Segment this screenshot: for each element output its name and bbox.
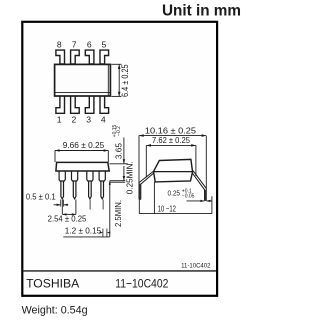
svg-text:11-10C402: 11-10C402 [181,264,211,270]
svg-text:TOSHIBA: TOSHIBA [26,277,80,291]
svg-text:7.62 ± 0.25: 7.62 ± 0.25 [152,136,190,145]
svg-text:10 ~12: 10 ~12 [158,205,177,214]
svg-text:0.25: 0.25 [168,189,181,198]
svg-text:3.65: 3.65 [114,143,123,160]
svg-text:8: 8 [57,40,62,50]
svg-text:4: 4 [101,114,106,124]
svg-text:−0.05: −0.05 [182,194,195,200]
svg-text:6: 6 [87,40,92,50]
svg-text:1.2 ± 0.15: 1.2 ± 0.15 [65,227,102,236]
svg-text:7: 7 [72,40,77,50]
svg-text:0.5 ± 0.1: 0.5 ± 0.1 [26,192,56,201]
svg-text:0.25MIN.: 0.25MIN. [125,161,134,194]
svg-text:3: 3 [86,114,91,124]
svg-text:1: 1 [57,114,62,124]
svg-text:9.66 ± 0.25: 9.66 ± 0.25 [63,141,105,150]
svg-text:2.5MIN.: 2.5MIN. [114,200,123,227]
svg-text:6.4 ± 0.25: 6.4 ± 0.25 [120,64,130,97]
svg-text:2.54 ± 0.25: 2.54 ± 0.25 [48,215,87,224]
svg-text:5: 5 [102,40,107,50]
svg-text:10.16 ± 0.25: 10.16 ± 0.25 [145,127,197,136]
svg-text:Weight: 0.54g: Weight: 0.54g [22,305,88,317]
svg-text:11−10C402: 11−10C402 [115,277,168,291]
svg-text:−0.2: −0.2 [116,126,122,136]
svg-text:2: 2 [72,114,77,124]
svg-text:Unit in mm: Unit in mm [162,2,241,19]
